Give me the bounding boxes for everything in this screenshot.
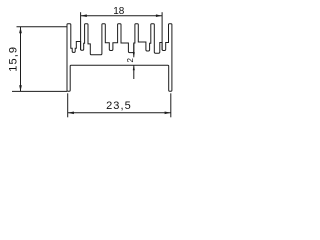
dim 23,5: left extension line <box>67 93 69 117</box>
arrowhead 18 left <box>81 14 87 17</box>
svg-text:18: 18 <box>113 6 125 17</box>
dim 18: dimension line <box>81 15 163 17</box>
heatsink profile outline <box>67 24 172 92</box>
dim 23,5: right extension line <box>170 93 172 117</box>
arrowhead 15,9 top <box>19 27 22 33</box>
dim 15,9: top extension line <box>17 26 68 28</box>
dim 23,5: dimension line <box>68 112 171 114</box>
dim 18: right extension line <box>161 12 163 50</box>
arrowhead 2 lower <box>133 65 135 70</box>
dim 2: lower stem <box>133 65 135 79</box>
svg-text:2: 2 <box>126 58 135 63</box>
arrowhead 15,9 bottom <box>19 85 22 91</box>
dim 18: left extension line <box>80 12 82 50</box>
dim 15,9: dimension line <box>20 27 22 91</box>
arrowhead 2 upper <box>133 52 135 57</box>
dim 15,9: bottom extension line <box>12 90 67 92</box>
arrowhead 23,5 left <box>68 111 74 114</box>
arrowhead 18 right <box>156 14 162 17</box>
svg-text:15,9: 15,9 <box>8 46 20 72</box>
svg-text:23,5: 23,5 <box>106 100 132 112</box>
arrowhead 23,5 right <box>165 111 171 114</box>
dim 2: upper stem <box>133 44 135 58</box>
